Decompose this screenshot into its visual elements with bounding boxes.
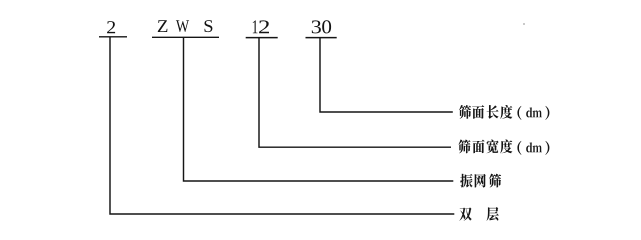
designation letter Z [158,20,168,32]
label 振网筛 (vibrating net screen) [460,174,472,188]
designation digit 1 of 12 [253,20,258,33]
designation letter W [176,20,189,32]
leader line from 12 down to 筛面宽度 label [259,38,451,148]
label 筛面长度 (screen length) [459,105,471,119]
label 筛面宽度 (screen width) [458,139,470,153]
designation letter S [204,20,212,32]
leader line from ZWS down to 振网筛 label [184,37,454,181]
leader line from 2 down to 双层 label [110,37,454,214]
designation digit 2 [107,21,115,33]
designation digit 3 of 30 [312,20,321,33]
unit (dm) for length row [517,106,521,120]
scan speck [523,23,525,25]
designation digit 0 of 30 [322,20,331,33]
underline under digit 2 [99,36,127,38]
underline under 30 [306,37,337,39]
leader line from 30 down to 筛面长度 label [320,38,453,112]
underline under ZWS [152,36,219,38]
label 双层 (double deck) [459,207,471,220]
underline under 12 [246,37,278,39]
designation digit 2 of 12 [259,20,269,33]
unit (dm) for width row [517,141,521,155]
